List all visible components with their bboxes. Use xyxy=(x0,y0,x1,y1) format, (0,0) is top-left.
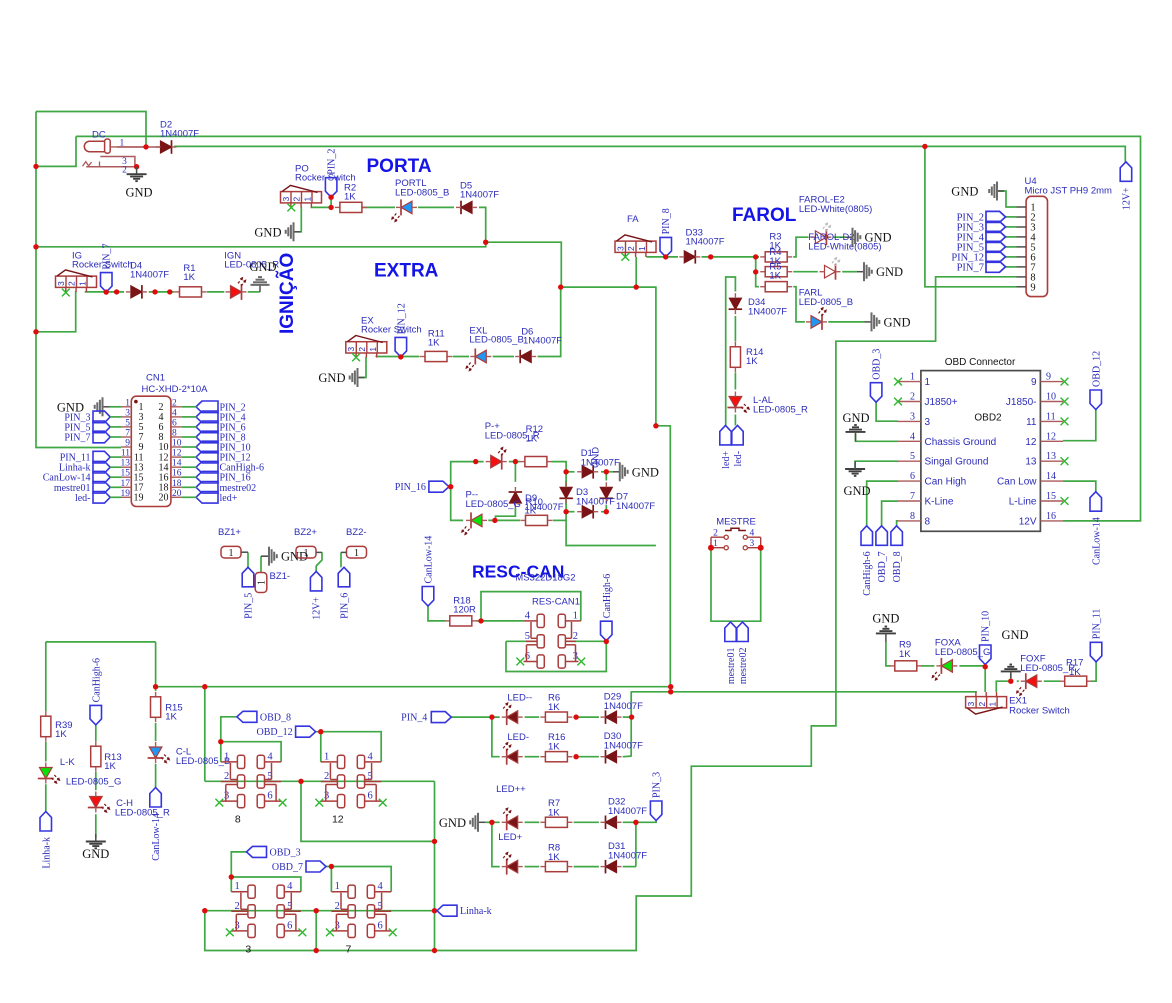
svg-text:12: 12 xyxy=(1025,437,1037,448)
svg-text:3: 3 xyxy=(966,702,976,707)
svg-text:OBD_12: OBD_12 xyxy=(1091,351,1102,387)
svg-text:1: 1 xyxy=(324,751,329,762)
svg-text:LED+: LED+ xyxy=(498,832,522,843)
svg-text:6: 6 xyxy=(377,920,382,931)
svg-text:120R: 120R xyxy=(453,605,476,616)
svg-text:GND: GND xyxy=(884,315,911,329)
svg-text:IGNIÇÃO: IGNIÇÃO xyxy=(276,253,298,334)
svg-text:14: 14 xyxy=(1046,471,1056,482)
svg-text:GND: GND xyxy=(318,371,345,385)
svg-text:Singal Ground: Singal Ground xyxy=(925,457,989,468)
svg-text:MS322D18G2: MS322D18G2 xyxy=(515,573,575,584)
svg-text:BZ1+: BZ1+ xyxy=(218,527,241,538)
svg-text:15: 15 xyxy=(121,469,131,479)
svg-text:OBD_8: OBD_8 xyxy=(260,712,291,723)
svg-text:GND: GND xyxy=(254,225,281,239)
svg-text:3: 3 xyxy=(750,539,755,549)
svg-text:OBD_12: OBD_12 xyxy=(256,727,292,738)
svg-text:DC: DC xyxy=(92,130,106,141)
svg-text:1: 1 xyxy=(304,548,309,559)
svg-text:LED-0805_G: LED-0805_G xyxy=(66,777,121,788)
svg-text:PIN_11: PIN_11 xyxy=(1092,609,1103,640)
svg-text:PIN_8: PIN_8 xyxy=(661,208,672,234)
svg-text:OBD_3: OBD_3 xyxy=(270,847,301,858)
svg-text:BZ2-: BZ2- xyxy=(346,527,367,538)
svg-text:CanLow-14: CanLow-14 xyxy=(151,813,162,861)
svg-text:J1850+: J1850+ xyxy=(925,397,958,408)
svg-text:LED--: LED-- xyxy=(507,693,532,704)
svg-text:9: 9 xyxy=(1031,377,1037,388)
svg-text:1N4007F: 1N4007F xyxy=(523,336,562,347)
svg-text:CanHigh-6: CanHigh-6 xyxy=(602,574,613,618)
svg-text:3: 3 xyxy=(245,943,251,955)
svg-text:Rocker Switch: Rocker Switch xyxy=(361,325,422,336)
svg-text:7: 7 xyxy=(910,491,915,502)
svg-text:GND: GND xyxy=(951,184,978,198)
svg-text:led-: led- xyxy=(733,451,744,467)
svg-text:CanHigh-6: CanHigh-6 xyxy=(862,551,873,595)
svg-text:8: 8 xyxy=(925,516,931,527)
svg-text:led-: led- xyxy=(75,493,91,504)
svg-text:10: 10 xyxy=(1046,392,1056,403)
svg-text:PORTA: PORTA xyxy=(367,156,432,177)
svg-text:Micro JST PH9 2mm: Micro JST PH9 2mm xyxy=(1025,186,1113,197)
svg-text:GND: GND xyxy=(842,411,869,425)
svg-text:7: 7 xyxy=(125,429,130,439)
svg-text:Linha-k: Linha-k xyxy=(41,837,52,869)
svg-text:PIN_7: PIN_7 xyxy=(957,263,984,274)
svg-text:15: 15 xyxy=(1046,491,1056,502)
svg-text:2: 2 xyxy=(335,901,340,912)
svg-text:2: 2 xyxy=(626,246,636,251)
svg-text:1K: 1K xyxy=(548,742,560,753)
svg-text:EXTRA: EXTRA xyxy=(374,261,439,282)
svg-text:3: 3 xyxy=(324,791,329,802)
svg-text:1: 1 xyxy=(125,398,130,408)
svg-text:5: 5 xyxy=(525,631,530,642)
svg-text:CN1: CN1 xyxy=(146,373,165,384)
svg-text:1K: 1K xyxy=(525,506,537,517)
svg-text:1K: 1K xyxy=(55,729,67,740)
svg-text:12: 12 xyxy=(332,814,344,826)
svg-text:2: 2 xyxy=(910,392,915,403)
svg-text:OBD2: OBD2 xyxy=(974,413,1002,424)
svg-text:LED-0805_B: LED-0805_B xyxy=(469,335,523,346)
svg-text:4: 4 xyxy=(267,751,273,762)
svg-text:1N4007F: 1N4007F xyxy=(686,237,725,248)
svg-text:1: 1 xyxy=(78,281,88,286)
svg-text:2: 2 xyxy=(235,901,240,912)
svg-text:led+: led+ xyxy=(721,451,732,469)
svg-text:GND: GND xyxy=(439,816,466,830)
svg-text:11: 11 xyxy=(121,449,130,459)
svg-text:1K: 1K xyxy=(548,808,560,819)
svg-text:Linha-k: Linha-k xyxy=(460,906,492,917)
svg-text:OBD Connector: OBD Connector xyxy=(945,357,1016,368)
svg-text:1K: 1K xyxy=(548,852,560,863)
svg-text:6: 6 xyxy=(525,651,530,662)
svg-text:1: 1 xyxy=(229,548,234,559)
svg-text:PIN_3: PIN_3 xyxy=(652,772,663,798)
svg-text:1: 1 xyxy=(303,197,313,202)
svg-text:Rocker Switch: Rocker Switch xyxy=(1009,706,1070,717)
svg-text:11: 11 xyxy=(1046,411,1056,422)
svg-text:L-K: L-K xyxy=(60,757,75,768)
svg-text:9: 9 xyxy=(125,439,130,449)
svg-text:GND: GND xyxy=(1001,628,1028,642)
svg-text:PIN_6: PIN_6 xyxy=(340,593,351,619)
svg-text:1: 1 xyxy=(224,751,229,762)
svg-text:1K: 1K xyxy=(104,761,116,772)
svg-text:3: 3 xyxy=(910,411,915,422)
svg-text:L-Line: L-Line xyxy=(1009,497,1037,508)
svg-text:12V+: 12V+ xyxy=(312,597,323,620)
svg-text:CanLow-14: CanLow-14 xyxy=(424,536,435,584)
svg-text:1K: 1K xyxy=(428,338,440,349)
svg-text:1N4007F: 1N4007F xyxy=(604,741,643,752)
svg-text:10: 10 xyxy=(172,439,182,449)
svg-text:2: 2 xyxy=(67,281,77,286)
svg-text:1N4007F: 1N4007F xyxy=(608,806,647,817)
svg-text:BZ1-: BZ1- xyxy=(270,571,291,582)
svg-text:2: 2 xyxy=(713,528,718,538)
svg-text:17: 17 xyxy=(121,479,131,489)
svg-text:GND: GND xyxy=(876,265,903,279)
svg-text:1: 1 xyxy=(988,702,998,707)
svg-text:LED-0805_B: LED-0805_B xyxy=(799,297,853,308)
svg-text:12: 12 xyxy=(1046,431,1056,442)
svg-text:PIN_10: PIN_10 xyxy=(981,611,992,642)
svg-text:1: 1 xyxy=(573,610,578,621)
svg-text:1K: 1K xyxy=(548,702,560,713)
svg-text:1: 1 xyxy=(637,246,647,251)
svg-text:PIN_5: PIN_5 xyxy=(244,593,255,619)
svg-text:2: 2 xyxy=(573,631,578,642)
svg-text:CanHigh-6: CanHigh-6 xyxy=(91,658,102,702)
svg-text:2: 2 xyxy=(224,771,229,782)
svg-text:LED-0805_G: LED-0805_G xyxy=(935,647,990,658)
svg-text:8: 8 xyxy=(172,429,177,439)
svg-text:GND: GND xyxy=(249,260,276,274)
svg-text:led+: led+ xyxy=(220,493,238,504)
svg-text:11: 11 xyxy=(1026,417,1037,428)
svg-text:1N4007F: 1N4007F xyxy=(608,851,647,862)
svg-text:1N4007F: 1N4007F xyxy=(604,701,643,712)
svg-text:2: 2 xyxy=(357,347,367,352)
svg-text:LED-0805_R: LED-0805_R xyxy=(753,405,808,416)
svg-text:4: 4 xyxy=(287,881,293,892)
svg-text:1N4007F: 1N4007F xyxy=(748,307,787,318)
svg-text:4: 4 xyxy=(367,751,373,762)
svg-text:Can High: Can High xyxy=(925,477,967,488)
svg-text:GND: GND xyxy=(872,612,899,626)
svg-text:2: 2 xyxy=(122,165,127,175)
svg-text:2: 2 xyxy=(324,771,329,782)
svg-text:LED++: LED++ xyxy=(496,784,526,795)
svg-text:1: 1 xyxy=(235,881,240,892)
svg-text:12V+: 12V+ xyxy=(1121,187,1132,210)
svg-text:2: 2 xyxy=(977,702,987,707)
svg-text:HC-XHD-2*10A: HC-XHD-2*10A xyxy=(142,384,209,395)
svg-text:4: 4 xyxy=(750,528,755,538)
svg-text:1: 1 xyxy=(257,580,268,585)
svg-text:PIN_12: PIN_12 xyxy=(396,303,407,334)
svg-text:4: 4 xyxy=(525,610,531,621)
svg-text:7: 7 xyxy=(345,943,351,955)
svg-text:3: 3 xyxy=(125,408,130,418)
svg-text:3: 3 xyxy=(235,920,240,931)
svg-text:1K: 1K xyxy=(746,356,758,367)
svg-text:1K: 1K xyxy=(769,271,781,282)
svg-text:20: 20 xyxy=(159,493,169,504)
svg-text:1N4007F: 1N4007F xyxy=(130,270,169,281)
svg-text:6: 6 xyxy=(367,791,372,802)
svg-text:FA: FA xyxy=(627,214,639,225)
svg-text:4: 4 xyxy=(172,408,177,418)
svg-text:mestre01: mestre01 xyxy=(726,648,737,685)
svg-text:2: 2 xyxy=(292,197,302,202)
svg-text:8: 8 xyxy=(235,814,241,826)
svg-text:13: 13 xyxy=(1025,457,1037,468)
svg-text:GND: GND xyxy=(865,231,892,245)
svg-text:6: 6 xyxy=(172,418,177,428)
svg-text:12: 12 xyxy=(172,449,182,459)
svg-text:3: 3 xyxy=(615,246,625,251)
svg-text:PIN_7: PIN_7 xyxy=(64,433,90,444)
svg-text:PIN_2: PIN_2 xyxy=(327,149,338,175)
svg-text:9: 9 xyxy=(1030,282,1035,293)
svg-text:OBD_7: OBD_7 xyxy=(877,551,888,582)
svg-text:LED-: LED- xyxy=(507,732,529,743)
svg-text:16: 16 xyxy=(172,469,182,479)
svg-text:13: 13 xyxy=(121,459,131,469)
svg-text:1: 1 xyxy=(354,548,359,559)
svg-text:LED-White(0805): LED-White(0805) xyxy=(799,204,872,215)
svg-text:1: 1 xyxy=(335,881,340,892)
svg-text:mestre02: mestre02 xyxy=(738,648,749,685)
svg-text:1N4007F: 1N4007F xyxy=(616,501,655,512)
svg-text:20: 20 xyxy=(172,489,182,499)
svg-text:4: 4 xyxy=(377,881,383,892)
svg-text:1K: 1K xyxy=(526,434,538,445)
svg-text:16: 16 xyxy=(1046,511,1056,522)
svg-text:J1850-: J1850- xyxy=(1006,397,1037,408)
svg-text:PIN_4: PIN_4 xyxy=(401,713,427,724)
svg-text:5: 5 xyxy=(125,418,130,428)
svg-text:GND: GND xyxy=(125,186,152,200)
svg-text:3: 3 xyxy=(346,347,356,352)
svg-text:GND: GND xyxy=(82,847,109,861)
svg-text:PIN_16: PIN_16 xyxy=(395,482,426,493)
svg-text:13: 13 xyxy=(1046,451,1056,462)
svg-text:1K: 1K xyxy=(899,649,911,660)
svg-text:2: 2 xyxy=(172,398,177,408)
svg-text:3: 3 xyxy=(925,417,931,428)
svg-text:8: 8 xyxy=(910,511,915,522)
svg-text:1K: 1K xyxy=(1069,667,1081,678)
svg-text:18: 18 xyxy=(172,479,182,489)
svg-text:1: 1 xyxy=(925,377,931,388)
svg-text:BZ2+: BZ2+ xyxy=(294,527,317,538)
svg-text:Chassis Ground: Chassis Ground xyxy=(925,437,997,448)
svg-text:1: 1 xyxy=(910,372,915,383)
svg-text:1: 1 xyxy=(368,347,378,352)
svg-text:OBD_3: OBD_3 xyxy=(872,349,883,380)
svg-text:5: 5 xyxy=(910,451,915,462)
svg-text:RES-CAN1: RES-CAN1 xyxy=(532,597,580,608)
svg-text:FAROL: FAROL xyxy=(732,205,797,226)
svg-text:LED-0805_B: LED-0805_B xyxy=(395,188,449,199)
svg-text:4: 4 xyxy=(910,431,915,442)
svg-text:6: 6 xyxy=(267,791,272,802)
svg-text:19: 19 xyxy=(121,489,131,499)
svg-text:1N4007F: 1N4007F xyxy=(460,190,499,201)
svg-text:1K: 1K xyxy=(183,272,195,283)
svg-text:PIN_7: PIN_7 xyxy=(102,243,113,269)
svg-text:GND: GND xyxy=(591,447,602,468)
svg-text:K-Line: K-Line xyxy=(925,497,954,508)
svg-text:GND: GND xyxy=(843,484,870,498)
svg-text:1: 1 xyxy=(120,139,125,149)
svg-text:6: 6 xyxy=(287,920,292,931)
svg-text:OBD_7: OBD_7 xyxy=(272,862,303,873)
svg-text:Can Low: Can Low xyxy=(997,477,1037,488)
svg-text:1N4007F: 1N4007F xyxy=(160,129,199,140)
svg-text:3: 3 xyxy=(335,920,340,931)
svg-text:1K: 1K xyxy=(344,192,356,203)
svg-text:3: 3 xyxy=(224,791,229,802)
svg-text:1K: 1K xyxy=(165,712,177,723)
svg-text:12V: 12V xyxy=(1019,516,1037,527)
svg-text:9: 9 xyxy=(1046,372,1051,383)
svg-text:19: 19 xyxy=(134,493,144,504)
svg-text:OBD_8: OBD_8 xyxy=(892,551,903,582)
svg-text:CanLow-14: CanLow-14 xyxy=(1091,517,1102,565)
svg-text:3: 3 xyxy=(56,281,66,286)
svg-text:MESTRE: MESTRE xyxy=(716,517,756,528)
svg-text:LED-0805_G: LED-0805_G xyxy=(466,499,521,510)
svg-text:3: 3 xyxy=(281,197,291,202)
svg-text:6: 6 xyxy=(910,471,915,482)
svg-text:14: 14 xyxy=(172,459,182,469)
svg-text:GND: GND xyxy=(632,465,659,479)
